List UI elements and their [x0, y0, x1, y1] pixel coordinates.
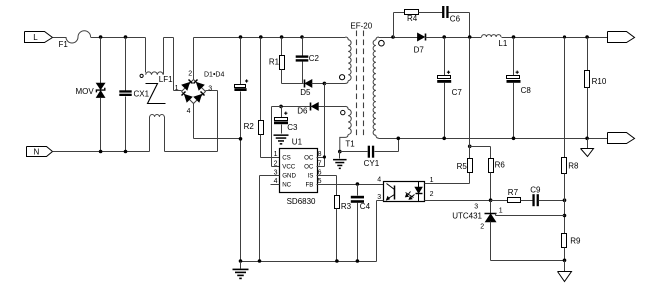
- svg-text:SD6830: SD6830: [287, 197, 316, 206]
- svg-text:3: 3: [208, 85, 212, 92]
- svg-text:1: 1: [175, 85, 179, 92]
- optocoupler U2: [377, 176, 433, 201]
- node: [442, 137, 446, 141]
- diode D6: [297, 103, 318, 116]
- inductor L1: [482, 35, 508, 49]
- wire: [564, 248, 566, 261]
- wire: [149, 117, 151, 152]
- wire: [125, 97, 127, 152]
- node: [585, 35, 589, 39]
- capacitor C8: [507, 71, 532, 96]
- wire: [513, 83, 515, 139]
- wire: [261, 135, 280, 158]
- svg-text:C7: C7: [452, 88, 463, 97]
- wire: [100, 38, 102, 84]
- wire: [587, 38, 589, 71]
- wire: [513, 38, 515, 76]
- svg-text:1: 1: [499, 208, 503, 215]
- capacitor C2: [296, 54, 320, 63]
- wire: [564, 174, 566, 234]
- svg-text:C6: C6: [450, 14, 461, 23]
- wire: [240, 38, 242, 85]
- svg-text:R6: R6: [495, 160, 506, 169]
- node: [259, 35, 263, 39]
- svg-text:N: N: [34, 148, 40, 157]
- wire: [521, 200, 533, 202]
- port output positive: [608, 32, 635, 43]
- wire: [240, 92, 242, 262]
- node: [563, 214, 567, 218]
- resistor R7: [508, 188, 521, 202]
- wire: [449, 13, 470, 38]
- wire pin3 GND: [260, 176, 280, 262]
- port L: [25, 32, 53, 43]
- wire: [394, 13, 405, 38]
- wire: [282, 83, 304, 85]
- op-amp U1 SD6830 controller: [274, 138, 322, 207]
- svg-text:2: 2: [430, 191, 434, 198]
- svg-text:4: 4: [377, 176, 381, 183]
- wire: [375, 139, 399, 152]
- wire: [336, 209, 338, 262]
- wire pin6 IS: [317, 176, 337, 196]
- svg-text:C4: C4: [360, 202, 371, 211]
- wire: [587, 88, 589, 139]
- transformer T1 secondary winding: [345, 37, 384, 148]
- svg-text:R3: R3: [341, 202, 352, 211]
- resistor R4: [405, 10, 419, 23]
- svg-text:CS: CS: [282, 154, 291, 161]
- svg-text:GND: GND: [282, 173, 296, 180]
- capacitor C9: [530, 186, 541, 207]
- wire: [164, 38, 182, 91]
- resistor R3: [335, 196, 352, 212]
- node: [239, 259, 243, 263]
- svg-text:UTC431: UTC431: [452, 211, 482, 220]
- port N: [27, 147, 53, 157]
- capacitor CY1: [364, 146, 380, 168]
- svg-text:2: 2: [188, 71, 192, 78]
- svg-text:R10: R10: [592, 77, 607, 86]
- svg-text:VCC: VCC: [282, 164, 296, 171]
- node: [397, 137, 401, 141]
- wire: [324, 84, 326, 167]
- wire: [145, 38, 147, 73]
- node: [489, 198, 493, 202]
- svg-text:CY1: CY1: [364, 159, 380, 168]
- node: [99, 150, 103, 154]
- node: [442, 35, 446, 39]
- svg-text:3: 3: [377, 194, 381, 201]
- wire: [470, 147, 491, 159]
- svg-text:F1: F1: [59, 40, 69, 49]
- wire: [377, 201, 384, 262]
- ground feedback: [558, 261, 572, 282]
- svg-text:CX1: CX1: [134, 90, 150, 99]
- wire: [357, 203, 359, 262]
- core mark LF1: [146, 84, 166, 104]
- node: [563, 259, 567, 263]
- svg-text:OC: OC: [304, 164, 314, 171]
- node: [99, 35, 103, 39]
- wire: [281, 38, 283, 56]
- svg-text:R9: R9: [570, 237, 581, 246]
- svg-text:L: L: [33, 33, 38, 42]
- wire pin4 stub: [271, 184, 280, 186]
- resistor R6: [489, 159, 506, 173]
- wire: [272, 107, 282, 167]
- node: [563, 35, 566, 38]
- svg-text:R8: R8: [568, 161, 579, 170]
- varistor MOV: [76, 83, 105, 97]
- svg-text:C9: C9: [530, 186, 541, 195]
- node: [512, 137, 516, 141]
- capacitor C4: [351, 185, 371, 212]
- wire: [312, 83, 325, 85]
- wire: [490, 173, 492, 201]
- resistor R8: [562, 158, 579, 174]
- wire: [100, 98, 102, 152]
- wire: [194, 38, 346, 80]
- wire: [491, 222, 565, 261]
- node: [468, 145, 472, 149]
- wire: [444, 38, 446, 76]
- node: [563, 198, 567, 202]
- capacitor C7: [437, 71, 462, 97]
- svg-text:NC: NC: [282, 181, 291, 188]
- node: [239, 35, 243, 39]
- resistor R5: [457, 159, 473, 173]
- svg-text:MOV: MOV: [76, 87, 95, 96]
- bridge rectifier D1-D4: [175, 71, 225, 115]
- svg-text:2: 2: [480, 224, 484, 231]
- svg-text:R5: R5: [457, 162, 468, 171]
- wire primary ground rail: [241, 261, 377, 263]
- capacitor C3: [274, 107, 298, 134]
- svg-text:U1: U1: [292, 138, 303, 147]
- capacitor CX1: [119, 90, 149, 99]
- wire: [444, 83, 446, 139]
- wire: [379, 37, 418, 39]
- svg-text:D6: D6: [297, 107, 308, 116]
- node: [323, 155, 326, 158]
- resistor R9: [562, 234, 581, 248]
- shunt regulator UTC431: [452, 201, 564, 231]
- svg-text:IS: IS: [308, 173, 314, 180]
- ground: [274, 134, 289, 144]
- resistor R10: [585, 71, 607, 88]
- node: [512, 35, 516, 39]
- transformer T1 core: [350, 21, 372, 135]
- svg-text:C2: C2: [309, 54, 320, 63]
- node: [338, 150, 342, 154]
- capacitor C1 bulk: [234, 79, 248, 91]
- node: [124, 35, 128, 39]
- node: [335, 259, 339, 263]
- wire: [206, 91, 218, 152]
- wire: [53, 37, 67, 39]
- node: [468, 35, 472, 39]
- svg-text:2: 2: [274, 161, 278, 168]
- wire: [165, 117, 218, 152]
- svg-text:LF1: LF1: [159, 75, 173, 84]
- node: [323, 82, 327, 86]
- svg-text:4: 4: [187, 108, 191, 115]
- wire: [260, 38, 262, 121]
- capacitor C6: [442, 6, 460, 23]
- node: [280, 35, 284, 39]
- svg-text:R7: R7: [508, 188, 519, 197]
- wire: [419, 12, 443, 14]
- wire: [91, 37, 146, 39]
- node: [258, 259, 262, 263]
- node: [356, 259, 360, 263]
- diode D7: [414, 33, 426, 54]
- svg-text:R1: R1: [269, 58, 280, 67]
- resistor R2: [244, 121, 264, 135]
- ground: [233, 262, 249, 280]
- wire: [302, 38, 304, 56]
- wire pin5 FB: [317, 184, 384, 186]
- wire secondary return rail: [379, 138, 608, 140]
- node: [300, 35, 304, 39]
- wire: [502, 37, 608, 39]
- ground: [333, 152, 347, 170]
- transformer T1 primary winding: [303, 37, 352, 83]
- wire: [302, 62, 304, 84]
- svg-text:D7: D7: [414, 45, 425, 54]
- node: [279, 105, 283, 109]
- wire pin7: [317, 166, 325, 168]
- resistor R1: [269, 56, 285, 70]
- inductor LF1 top winding: [140, 72, 173, 84]
- diode D5: [300, 80, 312, 98]
- svg-text:T1: T1: [345, 139, 355, 148]
- svg-text:R4: R4: [407, 14, 418, 23]
- wire: [491, 200, 508, 202]
- node: [124, 150, 128, 154]
- port output negative: [608, 133, 635, 144]
- wire: [282, 106, 311, 108]
- wire: [469, 38, 471, 159]
- wire: [325, 83, 346, 85]
- svg-text:1: 1: [274, 151, 278, 158]
- svg-text:EF-20: EF-20: [350, 21, 372, 30]
- svg-text:3: 3: [474, 203, 478, 210]
- svg-text:C3: C3: [287, 123, 298, 132]
- wire pin8: [317, 157, 325, 159]
- inductor LF1 bottom winding: [150, 114, 165, 116]
- svg-text:FB: FB: [305, 181, 313, 188]
- svg-text:C8: C8: [521, 86, 532, 95]
- svg-text:R2: R2: [244, 122, 255, 131]
- wire: [539, 200, 565, 202]
- transformer T1 aux winding: [340, 106, 351, 151]
- node: [391, 35, 395, 39]
- node: [239, 137, 243, 141]
- svg-text:D5: D5: [300, 88, 311, 97]
- svg-text:OC: OC: [304, 154, 314, 161]
- wire: [340, 151, 368, 153]
- wire: [53, 151, 150, 153]
- wire: [194, 104, 241, 139]
- wire: [319, 106, 346, 108]
- fuse F1: [59, 31, 91, 49]
- svg-text:D1•D4: D1•D4: [204, 72, 224, 79]
- wire: [425, 200, 491, 202]
- wire: [125, 38, 127, 91]
- svg-text:L1: L1: [498, 39, 507, 48]
- node: [585, 137, 589, 141]
- wire: [425, 173, 470, 184]
- wire: [281, 70, 283, 84]
- wire: [426, 37, 482, 39]
- wire: [564, 38, 566, 158]
- node: [356, 182, 360, 186]
- ground output: [581, 139, 594, 157]
